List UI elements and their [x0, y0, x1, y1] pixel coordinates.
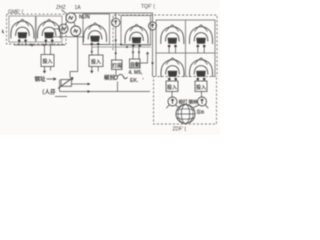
- edge artifact mark: [2, 30, 4, 34]
- box K2: [89, 55, 103, 67]
- B7 legs to K5: [169, 79, 175, 81]
- svg-text:GME′ (: GME′ (: [8, 10, 24, 16]
- rheostat wires: [60, 80, 151, 92]
- K4 wires up: [133, 47, 139, 59]
- svg-text:钢址: 钢址: [35, 75, 47, 83]
- circle trio: left synchro: [59, 24, 68, 33]
- C6 ticks: [193, 105, 208, 109]
- svg-text:TQF′ (: TQF′ (: [141, 4, 155, 10]
- bell B7: [161, 58, 184, 81]
- svg-text:投入: 投入: [196, 84, 206, 91]
- B8 legs to K6: [198, 79, 204, 81]
- bell B1 cell rect: [9, 16, 35, 42]
- bus under B3/B4: [92, 45, 152, 48]
- svg-text:投入: 投入: [167, 84, 177, 91]
- wire bus under GME: [14, 44, 65, 46]
- svg-text:EK. ′: EK. ′: [130, 78, 145, 84]
- K6 to C6 wire: [201, 92, 203, 98]
- svg-text:打闹: 打闹: [112, 63, 122, 70]
- svg-text:自動: 自動: [130, 61, 140, 68]
- svg-text:忘B: 忘B: [197, 109, 205, 116]
- solid rect around bell B3: [83, 14, 110, 45]
- short wire left of left synchro: [54, 28, 59, 30]
- svg-text:ZHZ: ZHZ: [56, 5, 66, 11]
- bell B4: [125, 24, 148, 47]
- circle C6: [198, 97, 207, 106]
- K5 to C5 wire: [171, 92, 173, 98]
- GME dashed box: [7, 14, 67, 44]
- wire bell1 legs: [19, 41, 25, 46]
- top wire: [71, 13, 153, 22]
- box K4: [130, 59, 141, 68]
- K3 wires: [115, 70, 117, 76]
- C4 wire down: [152, 30, 154, 77]
- globe: [176, 105, 195, 124]
- circle C3: [112, 18, 120, 26]
- svg-text:NUN: NUN: [79, 15, 90, 21]
- junction arrow on bus: [29, 44, 33, 47]
- arrow right from label: [47, 78, 57, 81]
- rheostat: [61, 80, 72, 87]
- circle C4: [149, 22, 157, 30]
- svg-text:钢林: 钢林: [189, 99, 198, 106]
- ZDF dashed box: [154, 77, 217, 125]
- diag wire top circle up-left: [62, 10, 68, 15]
- svg-text:投入: 投入: [91, 59, 101, 66]
- K4 right wire: [140, 52, 149, 63]
- box K5: [166, 81, 178, 92]
- svg-text:1A: 1A: [75, 5, 82, 11]
- circle trio: right synchro: [71, 26, 81, 36]
- solid rect around bell B4: [121, 16, 151, 46]
- svg-text:〔人芬: 〔人芬: [39, 88, 56, 96]
- svg-text:ZDF′ (: ZDF′ (: [173, 127, 187, 133]
- bell B8: [189, 58, 212, 81]
- trio connecting wires: [65, 21, 75, 26]
- bell B3: [83, 23, 106, 46]
- C3 wires: [115, 13, 117, 60]
- bell B6: [189, 25, 212, 48]
- wire left synchro to B3 leg: [53, 36, 85, 38]
- arrows on feeder wires: [91, 51, 141, 54]
- box K6: [195, 81, 207, 92]
- K1 wires up: [45, 45, 51, 55]
- box K1: [41, 55, 54, 67]
- bell B5: [161, 25, 184, 48]
- legs row1 to divider: [169, 46, 204, 53]
- bell B1: [11, 19, 34, 42]
- K1 bottom wires: [45, 67, 51, 74]
- wire right synchro down, bend left: [70, 36, 78, 78]
- svg-text:投入: 投入: [43, 58, 53, 65]
- handwheel: [114, 74, 127, 79]
- C5 ticks: [166, 105, 179, 109]
- bell B2: [37, 19, 60, 42]
- svg-text:4. M5,: 4. M5,: [129, 70, 144, 76]
- K2 bottom wires: [92, 67, 98, 74]
- wire bell2 legs: [46, 41, 52, 46]
- bell B2 cell rect: [36, 16, 62, 42]
- circle C5: [168, 97, 177, 106]
- K2 wires up: [92, 46, 98, 56]
- box K3: [112, 60, 123, 70]
- right grid 2x2: [156, 20, 215, 53]
- circle trio: top synchro: [66, 13, 76, 23]
- TQF dashed box: [113, 15, 217, 77]
